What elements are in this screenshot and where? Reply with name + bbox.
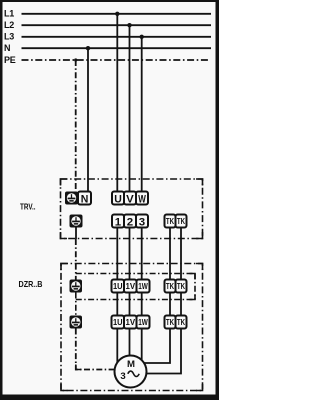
svg-text:2: 2 (127, 217, 133, 229)
terminal TK2 row3 (176, 280, 187, 293)
bus line PE (22, 59, 211, 61)
wire PE rail upper (76, 273, 195, 275)
corner ticks DZR box (61, 264, 203, 391)
bus line L1 (22, 13, 212, 15)
corner ticks PE rail (76, 274, 195, 370)
terminal 2 row2 (124, 215, 136, 229)
motor M1 (115, 356, 147, 388)
svg-text:1W: 1W (138, 317, 148, 327)
bus line L2 (22, 24, 212, 26)
wire 1W to motor (141, 329, 143, 360)
wire TK2 row3 to row4 (180, 293, 182, 316)
wire PE row2 to TRV edge (75, 228, 77, 240)
border frame (0, 0, 219, 400)
terminal TK1 row2 (165, 215, 176, 228)
terminal N row1 (78, 192, 91, 206)
wire PE rail right vertical (194, 274, 196, 300)
corner ticks TRV box (61, 179, 203, 239)
wire PE row3 to row4 (75, 293, 77, 316)
node L3 junction (140, 35, 144, 39)
svg-text:V: V (126, 194, 134, 206)
wire phase1 row3 to row4 (116, 293, 118, 316)
wire TK1 row3 to row4 (169, 293, 171, 316)
svg-text:3: 3 (120, 371, 125, 382)
wire TK2 row2 to row3 (180, 228, 182, 280)
wire PE TRV to row3 (75, 239, 77, 280)
svg-text:3: 3 (139, 217, 145, 229)
svg-text:L1: L1 (4, 9, 14, 19)
terminal 1U row3 (112, 280, 125, 293)
svg-text:TK: TK (166, 216, 175, 226)
svg-text:1W: 1W (138, 281, 148, 291)
node PE junction (74, 58, 77, 61)
node L1 junction (115, 12, 119, 16)
svg-text:N: N (81, 194, 89, 206)
svg-text:TK: TK (177, 317, 186, 327)
wire TK2 to motor (146, 329, 181, 374)
fan box DZR..B (61, 264, 203, 391)
svg-text:TK: TK (177, 216, 186, 226)
svg-text:1V: 1V (126, 281, 136, 291)
svg-text:1: 1 (115, 217, 121, 229)
terminal TK2 row4 (176, 316, 187, 329)
wire 1V to motor (129, 329, 131, 357)
terminal V row1 (124, 192, 136, 206)
terminal 1U row4 (112, 316, 125, 329)
wire L2 drop (129, 25, 131, 192)
wire 1U to motor (116, 329, 118, 363)
terminal 1V row4 (124, 316, 137, 329)
svg-text:1U: 1U (113, 317, 123, 327)
svg-text:N: N (4, 43, 10, 53)
terminal 1 row2 (112, 215, 124, 229)
terminal W row1 (136, 192, 148, 206)
terminal 1W row3 (137, 280, 150, 293)
wire L3 drop (141, 37, 143, 192)
svg-text:PE: PE (4, 55, 16, 65)
node L2 junction (127, 23, 131, 27)
terminal 3 row2 (136, 215, 148, 229)
svg-text:TK: TK (177, 281, 186, 291)
svg-text:W: W (138, 194, 146, 206)
bus line N (22, 47, 212, 49)
terminal U row1 (112, 192, 124, 206)
svg-text:U: U (114, 194, 122, 206)
wire PE to motor (76, 329, 115, 370)
wire PE rail lower (76, 299, 195, 301)
terminal 1W row4 (137, 316, 150, 329)
terminal 1V row3 (124, 280, 137, 293)
terminal PE row3 (70, 280, 83, 293)
terminal PE row4 (70, 316, 83, 329)
terminal TK2 row2 (176, 215, 187, 228)
wire TK1 row2 to row3 (169, 228, 171, 280)
wire phase1 row2 to row3 (116, 228, 118, 280)
wire PE drop (75, 60, 77, 191)
terminal PE row1 (65, 192, 78, 205)
svg-text:M: M (127, 359, 135, 370)
wire TK1 to motor (144, 329, 170, 364)
svg-text:L3: L3 (4, 32, 14, 42)
wire N drop (87, 48, 89, 191)
wire phase2 row2 to row3 (129, 228, 131, 280)
wire phase3 row2 to row3 (141, 228, 143, 280)
wire phase2 row3 to row4 (129, 293, 131, 316)
svg-text:TRV..: TRV.. (20, 202, 36, 212)
terminal PE row2 (70, 215, 83, 228)
svg-text:1U: 1U (113, 281, 123, 291)
wire phase3 row3 to row4 (141, 293, 143, 316)
terminal TK1 row3 (165, 280, 176, 293)
svg-text:L2: L2 (4, 20, 14, 30)
svg-text:TK: TK (166, 281, 175, 291)
terminal TK1 row4 (165, 316, 176, 329)
controller box TRV (61, 179, 203, 239)
svg-text:DZR..B: DZR..B (19, 279, 43, 289)
bus line L3 (22, 36, 212, 38)
svg-text:1V: 1V (126, 317, 136, 327)
svg-text:TK: TK (166, 317, 175, 327)
wire L1 drop (116, 14, 118, 192)
node N junction (86, 46, 90, 50)
